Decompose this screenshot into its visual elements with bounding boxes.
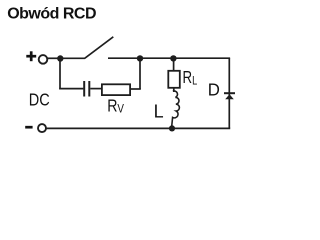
svg-text:DC: DC — [29, 90, 50, 110]
junction node E (inductor to bottom rail) — [169, 125, 175, 131]
label D — [208, 79, 220, 100]
resistor RL (box) — [168, 71, 180, 88]
wire (RL to inductor) — [173, 88, 175, 92]
wire (bottom rail) — [46, 127, 230, 129]
svg-text:RL: RL — [183, 68, 198, 88]
wire (RV to riser) — [130, 88, 141, 90]
svg-text:D: D — [208, 79, 220, 100]
label RL — [183, 68, 198, 88]
capacitor C plate 1 — [83, 81, 85, 97]
diode D (anode triangle, pointing up) — [225, 94, 234, 99]
label RV — [107, 96, 124, 116]
junction node A — [57, 55, 63, 61]
wire (T1 to node A) — [47, 57, 58, 59]
capacitor C plate 2 — [88, 81, 90, 97]
label L — [154, 101, 164, 121]
svg-text:Obwód RCD: Obwód RCD — [7, 6, 96, 23]
diode D (cathode bar) — [224, 92, 235, 94]
wire (RC branch riser up to node B) — [139, 58, 141, 89]
wire (node A down) — [59, 58, 61, 89]
resistor RV (box) — [102, 84, 130, 95]
terminal T2 (-) — [38, 124, 46, 132]
junction node C (top of RL branch) — [170, 55, 176, 61]
switch S1 blade (open) — [85, 37, 114, 59]
inductor L (coil) — [172, 91, 180, 126]
wire (top rail: fixed contact to right corner) — [108, 57, 230, 59]
plus polarity sign — [26, 51, 36, 61]
wire (node C down to RL) — [173, 58, 175, 70]
minus polarity sign — [25, 126, 32, 129]
svg-text:RV: RV — [107, 96, 124, 116]
wire (right rail down) — [228, 58, 230, 128]
wire (RC branch left horizontal) — [59, 88, 83, 90]
wire (node A to switch hinge) — [60, 57, 85, 59]
svg-text:L: L — [154, 101, 164, 121]
terminal T1 (+) — [39, 55, 48, 64]
label DC — [29, 90, 50, 110]
junction node B (top of RV branch) — [137, 55, 143, 61]
wire (capacitor to RV) — [90, 88, 102, 90]
